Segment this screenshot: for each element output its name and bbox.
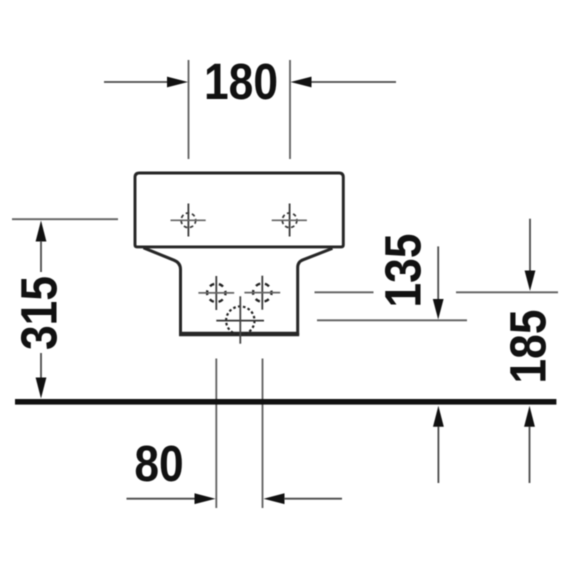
dimension 180: left extension line — [188, 60, 190, 159]
dimension 80: right arrow shaft — [284, 498, 342, 500]
svg-text:185: 185 — [501, 309, 558, 383]
svg-text:315: 315 — [12, 276, 69, 350]
fixing hole left: crosshair — [171, 204, 206, 237]
dimension 180: left arrow shaft — [104, 81, 170, 83]
dimension 185: down arrowhead — [525, 271, 536, 292]
fixing hole right: crosshair — [272, 204, 307, 237]
body: pedestal bottom edge — [179, 333, 299, 336]
dimension 80: right arrowhead — [264, 493, 285, 504]
dimension 315: lower shaft — [40, 353, 42, 378]
dimension 80: left arrow shaft — [127, 498, 197, 500]
dimension 180: left arrowhead — [167, 77, 188, 88]
dimension 80: left arrowhead — [195, 493, 216, 504]
dimension 135: lower shaft below floor — [437, 427, 439, 484]
dimension 315: lower arrowhead — [36, 378, 47, 399]
extension line at supply-hole level (185 ref), left segment — [315, 291, 374, 293]
svg-text:80: 80 — [134, 436, 183, 493]
extension line at supply-hole level (185 ref), right segment — [456, 291, 558, 293]
svg-text:180: 180 — [204, 54, 278, 111]
dimension 135: lower up-arrowhead below floor — [433, 406, 444, 427]
supply hole left: dashed crosshair — [198, 276, 234, 310]
dimension 185: lower shaft below floor — [529, 427, 531, 484]
dimension 180: right arrow shaft — [311, 81, 396, 83]
dimension 180: right extension line — [289, 60, 291, 159]
dimension 185: upper shaft — [529, 219, 531, 271]
floor line — [15, 399, 556, 405]
dimension 185: lower up-arrowhead below floor — [524, 406, 535, 427]
dimension 135: down arrowhead — [433, 299, 444, 320]
dimension 80: right extension line — [262, 359, 264, 509]
body: upper tank outline — [135, 173, 343, 247]
extension line at drain level (135 ref) — [317, 319, 467, 321]
dimension 315: top extension line — [12, 218, 118, 220]
dimension 315: upper shaft — [40, 241, 42, 272]
dimension 180: right arrowhead — [291, 77, 312, 88]
dimension 315: upper arrowhead — [36, 221, 47, 242]
body: lower pedestal outline — [144, 248, 333, 333]
dimension 135: upper shaft — [437, 246, 439, 300]
supply hole right: dashed crosshair — [244, 276, 280, 310]
dimension 80: left extension line — [215, 359, 217, 509]
svg-text:135: 135 — [376, 233, 433, 307]
drain hole: dotted circle crosshair — [216, 296, 264, 343]
